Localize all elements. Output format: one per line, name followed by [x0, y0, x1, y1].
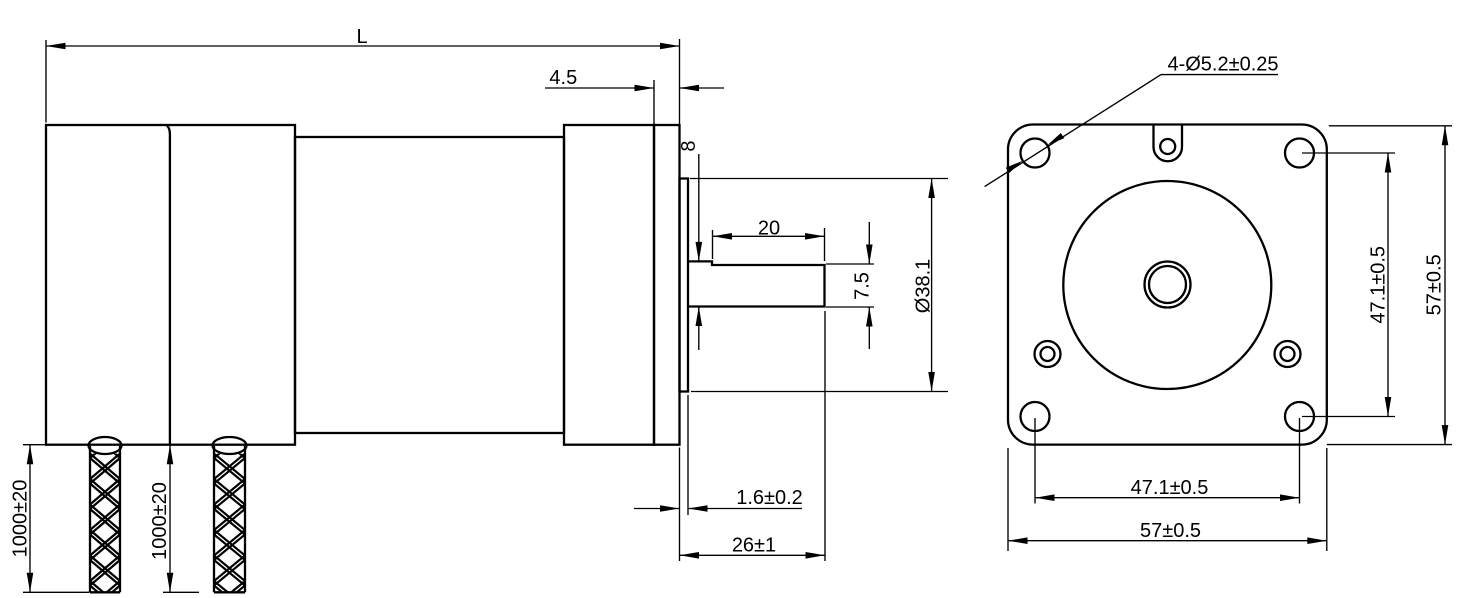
- small boss hole left outer: [1035, 341, 1061, 367]
- svg-text:1.6±0.2: 1.6±0.2: [736, 487, 803, 509]
- svg-text:47.1±0.5: 47.1±0.5: [1368, 246, 1390, 324]
- mounting hole top-left: [1021, 139, 1050, 168]
- gearbox front block: [564, 125, 654, 445]
- svg-text:4-Ø5.2±0.25: 4-Ø5.2±0.25: [1167, 54, 1278, 76]
- small boss hole right outer: [1275, 341, 1301, 367]
- dimension 20 (shaft length): [712, 230, 714, 259]
- small boss hole left inner: [1041, 347, 1055, 361]
- svg-text:57±0.5: 57±0.5: [1424, 254, 1446, 315]
- top ear tab: [1154, 125, 1183, 162]
- motor rear body (two blocks): [46, 125, 295, 445]
- dimension 57 vertical (flange size): [1329, 125, 1452, 127]
- cable1 wire end ellipse: [89, 437, 122, 454]
- dimension 4.5 (plate thickness): [653, 80, 655, 124]
- front mounting plate (4.5): [654, 125, 680, 445]
- mounting hole top-right: [1285, 139, 1314, 168]
- dimension 1000 +/-20 (cable 1 length): [23, 444, 45, 446]
- svg-text:57±0.5: 57±0.5: [1140, 520, 1201, 542]
- front flange square outline: [1008, 125, 1327, 445]
- svg-text:8: 8: [678, 140, 700, 151]
- svg-text:7.5: 7.5: [852, 272, 874, 300]
- small boss hole right inner: [1281, 347, 1295, 361]
- dimension 1.6 +/-0.2 (flange thickness): [679, 448, 681, 562]
- svg-text:Ø38.1: Ø38.1: [913, 259, 935, 313]
- dimension D38.1 (flange diameter): [690, 178, 948, 180]
- svg-text:20: 20: [758, 217, 780, 239]
- dimension 47.1 vertical (hole spacing): [1302, 152, 1395, 154]
- dimension 47.1 horizontal (hole spacing): [1034, 418, 1036, 504]
- ear tab hole: [1160, 139, 1175, 154]
- svg-text:47.1±0.5: 47.1±0.5: [1131, 477, 1209, 499]
- pilot flange disc (1.6, D38.1): [680, 179, 689, 392]
- pilot circle: [1063, 181, 1271, 389]
- svg-text:L: L: [356, 26, 367, 48]
- svg-text:1000±20: 1000±20: [149, 482, 171, 560]
- svg-text:4.5: 4.5: [549, 67, 577, 89]
- dimension 8 (shaft root diameter): [698, 154, 700, 261]
- mounting hole bottom-left: [1021, 402, 1050, 431]
- svg-text:1000±20: 1000±20: [10, 480, 32, 558]
- mounting hole bottom-right: [1285, 402, 1314, 431]
- body divider line with fillet: [167, 125, 170, 444]
- svg-text:26±1: 26±1: [732, 535, 776, 557]
- shaft hole outer ring: [1145, 262, 1191, 308]
- motor narrow mid housing: [295, 137, 564, 433]
- shaft hole inner: [1149, 266, 1186, 303]
- dimension 57 horizontal (flange size): [1007, 448, 1009, 551]
- dimension L (overall length): [45, 40, 47, 123]
- dimension 1000 +/-20 (cable 2 length): [163, 591, 199, 593]
- cable2 lead wire: [214, 446, 245, 592]
- output shaft: [688, 261, 825, 306]
- cable2 wire end ellipse: [213, 437, 247, 454]
- dimension 26 +/-1 (shaft extension): [824, 311, 826, 561]
- cable1 lead wire: [90, 446, 120, 592]
- dimension 7.5 (shaft diameter): [826, 263, 874, 265]
